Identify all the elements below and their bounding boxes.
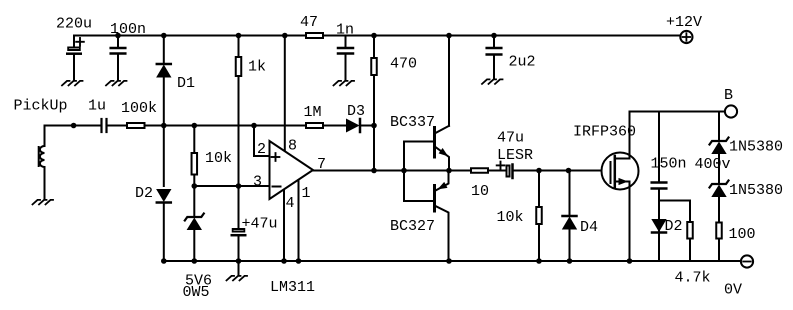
svg-text:1: 1 <box>302 185 311 202</box>
svg-text:10: 10 <box>471 183 489 200</box>
svg-text:2: 2 <box>257 141 266 158</box>
svg-text:B: B <box>724 87 733 104</box>
svg-text:47u: 47u <box>497 129 524 146</box>
svg-text:IRFP360: IRFP360 <box>573 123 636 140</box>
svg-text:+47u: +47u <box>242 215 278 232</box>
svg-text:0W5: 0W5 <box>183 284 210 301</box>
svg-text:BC327: BC327 <box>390 218 435 235</box>
svg-text:100k: 100k <box>121 100 157 117</box>
svg-text:3: 3 <box>253 173 262 190</box>
svg-text:8: 8 <box>288 137 297 154</box>
svg-text:1N5380: 1N5380 <box>729 138 783 155</box>
svg-text:100n: 100n <box>110 21 146 38</box>
svg-text:+12V: +12V <box>666 14 702 31</box>
svg-text:4.7k: 4.7k <box>675 269 711 286</box>
svg-text:1N5380: 1N5380 <box>729 182 783 199</box>
svg-text:47: 47 <box>300 14 318 31</box>
svg-text:PickUp: PickUp <box>14 97 68 114</box>
svg-text:4: 4 <box>286 195 295 212</box>
svg-text:D3: D3 <box>347 103 365 120</box>
svg-text:400v: 400v <box>695 156 731 173</box>
svg-text:1n: 1n <box>336 21 354 38</box>
svg-text:10k: 10k <box>205 150 232 167</box>
svg-text:150n: 150n <box>651 155 687 172</box>
svg-text:D4: D4 <box>580 219 598 236</box>
svg-text:1u: 1u <box>88 97 106 114</box>
svg-text:1k: 1k <box>248 58 266 75</box>
svg-text:0V: 0V <box>724 281 742 298</box>
svg-text:1M: 1M <box>304 104 322 121</box>
svg-text:LM311: LM311 <box>270 279 315 296</box>
svg-text:D2: D2 <box>135 185 153 202</box>
svg-text:2u2: 2u2 <box>509 53 536 70</box>
svg-text:D2: D2 <box>665 218 683 235</box>
svg-text:220u: 220u <box>56 15 92 32</box>
svg-text:D1: D1 <box>177 75 195 92</box>
svg-text:LESR: LESR <box>497 147 533 164</box>
svg-text:470: 470 <box>390 55 417 72</box>
svg-text:10k: 10k <box>497 209 524 226</box>
svg-text:100: 100 <box>729 226 756 243</box>
svg-text:BC337: BC337 <box>390 114 435 131</box>
